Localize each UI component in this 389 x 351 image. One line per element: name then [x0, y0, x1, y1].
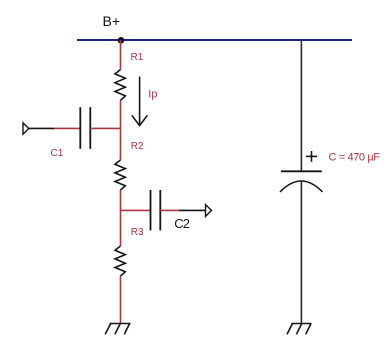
svg-text:R1: R1 — [131, 52, 144, 63]
capacitor C2 — [151, 190, 161, 230]
label R3 — [131, 227, 144, 238]
wire junction B to C2 left plate — [121, 209, 151, 211]
svg-text:R2: R2 — [131, 141, 144, 152]
svg-text:B+: B+ — [103, 13, 121, 29]
resistor R2 — [115, 160, 125, 190]
wire node to R1 — [120, 40, 122, 70]
net label B+ — [103, 13, 121, 29]
wire C2 right plate (red part) — [160, 209, 179, 211]
capacitor C1 — [80, 107, 90, 149]
label R1 — [131, 52, 144, 63]
output port triangle — [206, 205, 212, 217]
wire to output port (black) — [179, 209, 206, 211]
label C = 470 uF — [329, 151, 381, 163]
wire rail to capacitor C top plate — [300, 40, 302, 171]
capacitor C curved plate — [280, 181, 323, 192]
input port triangle — [23, 123, 29, 134]
resistor R1 — [115, 70, 125, 101]
capacitor C top plate — [281, 170, 322, 172]
label C1 — [51, 148, 64, 159]
svg-text:R3: R3 — [131, 227, 144, 238]
svg-text:Ip: Ip — [148, 88, 157, 100]
resistor R3 — [115, 246, 125, 276]
wire R2 to junction B — [120, 190, 122, 246]
svg-text:C = 470 µF: C = 470 µF — [329, 151, 381, 163]
wire B+ rail — [77, 39, 352, 41]
label C2 — [174, 216, 189, 231]
ground right — [287, 324, 312, 335]
wire input to C1 (black) — [29, 127, 54, 129]
ground left — [105, 324, 130, 335]
wire R1 to junction A — [120, 101, 122, 161]
svg-text:C1: C1 — [51, 148, 64, 159]
wire to C1 left plate (red) — [54, 127, 80, 129]
wire R3 to ground — [120, 276, 122, 324]
current arrow Ip — [132, 77, 148, 126]
wire C1 right plate to junction A — [90, 127, 120, 129]
capacitor C plus sign — [306, 151, 317, 162]
node junction dot — [118, 37, 125, 44]
svg-text:C2: C2 — [174, 216, 189, 231]
wire capacitor C to ground — [300, 181, 302, 324]
label R2 — [131, 141, 144, 152]
label Ip — [148, 88, 157, 100]
